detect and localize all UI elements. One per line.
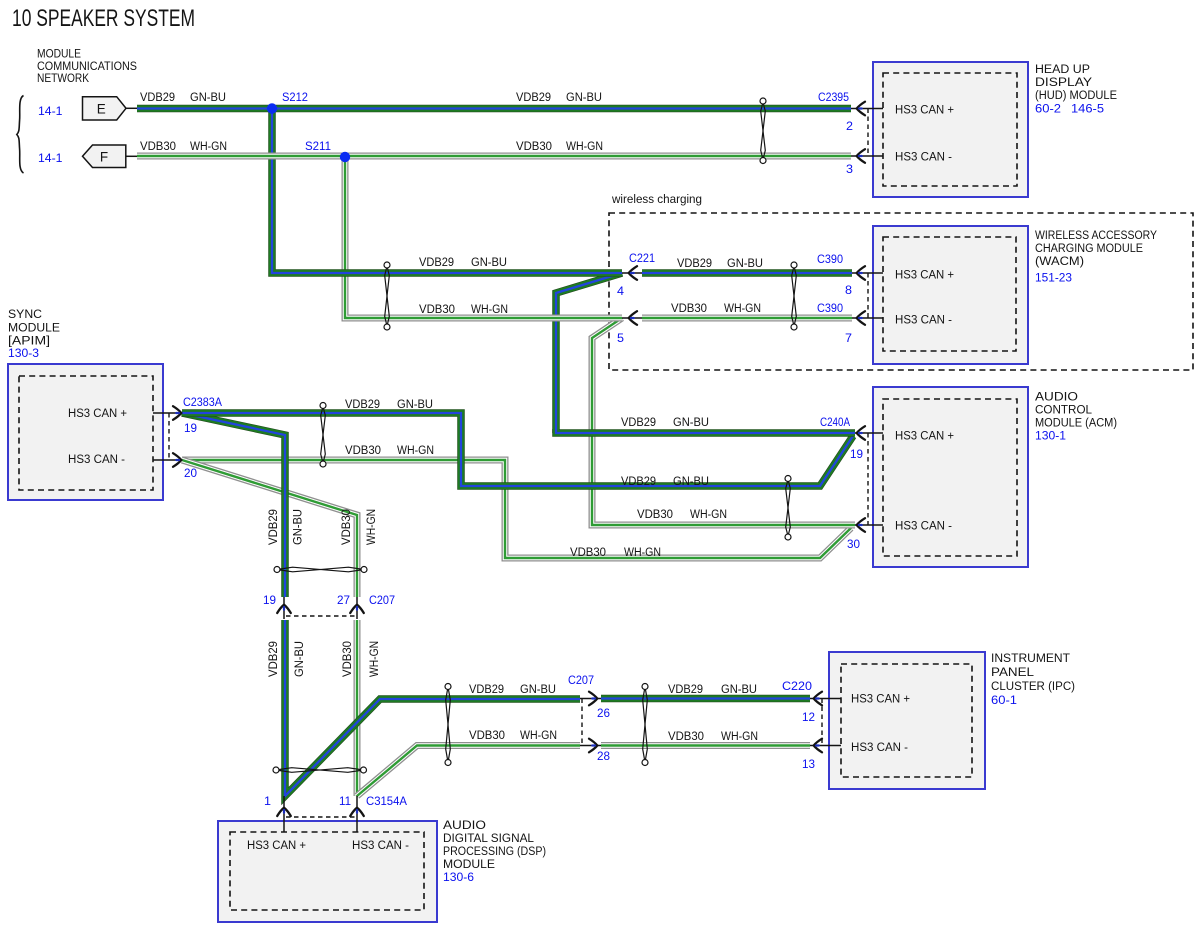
svg-text:GN-BU: GN-BU	[566, 90, 602, 104]
svg-text:MODULE: MODULE	[443, 857, 495, 871]
svg-text:WH-GN: WH-GN	[397, 443, 434, 457]
svg-text:HS3 CAN +: HS3 CAN +	[895, 429, 954, 443]
svg-text:28: 28	[597, 749, 610, 763]
svg-text:E: E	[97, 102, 106, 117]
svg-text:5: 5	[617, 331, 624, 345]
svg-text:60-2: 60-2	[1035, 102, 1061, 116]
svg-text:VDB29: VDB29	[266, 641, 280, 677]
svg-text:WH-GN: WH-GN	[566, 139, 603, 153]
svg-text:MODULE: MODULE	[8, 321, 60, 335]
svg-text:27: 27	[337, 593, 350, 607]
svg-text:C2383A: C2383A	[183, 395, 223, 409]
svg-text:CLUSTER (IPC): CLUSTER (IPC)	[991, 679, 1075, 693]
svg-text:HS3 CAN -: HS3 CAN -	[895, 519, 952, 533]
svg-text:MODULE (ACM): MODULE (ACM)	[1035, 416, 1117, 430]
svg-text:VDB30: VDB30	[140, 139, 176, 153]
svg-text:VDB29: VDB29	[419, 255, 454, 269]
svg-text:19: 19	[850, 447, 863, 461]
svg-text:HS3 CAN -: HS3 CAN -	[895, 313, 952, 327]
svg-text:HS3 CAN +: HS3 CAN +	[247, 838, 306, 852]
svg-text:wireless charging: wireless charging	[611, 192, 702, 206]
svg-text:19: 19	[263, 593, 276, 607]
svg-text:VDB29: VDB29	[621, 415, 656, 429]
svg-text:DISPLAY: DISPLAY	[1035, 75, 1092, 89]
svg-text:WH-GN: WH-GN	[721, 729, 758, 743]
svg-text:C207: C207	[568, 673, 594, 687]
svg-text:HS3 CAN -: HS3 CAN -	[68, 452, 125, 466]
svg-text:VDB30: VDB30	[516, 139, 552, 153]
svg-text:VDB29: VDB29	[345, 397, 380, 411]
svg-text:7: 7	[845, 331, 852, 345]
svg-text:C3154A: C3154A	[366, 794, 408, 808]
svg-text:C240A: C240A	[820, 415, 851, 429]
svg-text:GN-BU: GN-BU	[190, 90, 226, 104]
svg-text:HS3 CAN +: HS3 CAN +	[895, 103, 954, 117]
svg-text:VDB30: VDB30	[671, 301, 707, 315]
svg-text:VDB30: VDB30	[419, 302, 455, 316]
svg-text:WH-GN: WH-GN	[624, 545, 661, 559]
svg-text:INSTRUMENT: INSTRUMENT	[991, 651, 1070, 665]
svg-text:PROCESSING (DSP): PROCESSING (DSP)	[443, 844, 546, 858]
svg-text:C390: C390	[817, 252, 843, 266]
svg-text:3: 3	[846, 162, 853, 176]
svg-text:HS3 CAN +: HS3 CAN +	[68, 406, 127, 420]
svg-text:HS3 CAN +: HS3 CAN +	[895, 268, 954, 282]
svg-text:PANEL: PANEL	[991, 665, 1034, 679]
svg-text:GN-BU: GN-BU	[673, 474, 709, 488]
svg-text:C2395: C2395	[818, 90, 849, 104]
svg-text:GN-BU: GN-BU	[471, 255, 507, 269]
svg-text:VDB30: VDB30	[340, 641, 354, 677]
svg-text:DIGITAL SIGNAL: DIGITAL SIGNAL	[443, 831, 534, 845]
svg-text:VDB30: VDB30	[469, 728, 505, 742]
svg-text:HS3 CAN +: HS3 CAN +	[851, 692, 910, 706]
svg-text:WH-GN: WH-GN	[520, 728, 557, 742]
svg-text:AUDIO: AUDIO	[443, 818, 486, 832]
svg-text:GN-BU: GN-BU	[520, 682, 556, 696]
svg-text:WH-GN: WH-GN	[724, 301, 761, 315]
svg-text:C207: C207	[369, 593, 395, 607]
svg-text:SYNC: SYNC	[8, 307, 42, 321]
svg-text:VDB30: VDB30	[637, 507, 673, 521]
svg-text:HS3 CAN -: HS3 CAN -	[352, 838, 409, 852]
svg-text:HS3 CAN -: HS3 CAN -	[851, 740, 908, 754]
svg-text:VDB30: VDB30	[570, 545, 606, 559]
svg-text:WH-GN: WH-GN	[471, 302, 508, 316]
svg-text:C221: C221	[629, 251, 655, 265]
svg-text:S211: S211	[305, 139, 331, 153]
svg-text:19: 19	[184, 421, 197, 435]
svg-text:VDB30: VDB30	[339, 509, 353, 545]
svg-text:HEAD UP: HEAD UP	[1035, 62, 1090, 76]
svg-text:GN-BU: GN-BU	[727, 256, 763, 270]
svg-text:1: 1	[264, 794, 271, 808]
svg-text:VDB29: VDB29	[621, 474, 656, 488]
svg-text:GN-BU: GN-BU	[291, 509, 305, 545]
svg-text:26: 26	[597, 706, 610, 720]
svg-text:(HUD) MODULE: (HUD) MODULE	[1035, 88, 1117, 102]
svg-text:VDB29: VDB29	[516, 90, 551, 104]
svg-text:GN-BU: GN-BU	[292, 641, 306, 677]
svg-text:VDB29: VDB29	[140, 90, 175, 104]
svg-text:12: 12	[802, 710, 815, 724]
svg-text:GN-BU: GN-BU	[721, 682, 757, 696]
svg-text:C390: C390	[817, 301, 843, 315]
svg-text:WH-GN: WH-GN	[367, 641, 381, 677]
svg-text:GN-BU: GN-BU	[673, 415, 709, 429]
svg-text:VDB29: VDB29	[266, 509, 280, 545]
svg-text:14-1: 14-1	[38, 151, 63, 165]
svg-text:11: 11	[339, 794, 351, 808]
svg-text:VDB30: VDB30	[668, 729, 704, 743]
svg-text:NETWORK: NETWORK	[37, 71, 90, 85]
svg-text:WH-GN: WH-GN	[190, 139, 227, 153]
svg-text:HS3 CAN -: HS3 CAN -	[895, 150, 952, 164]
svg-text:F: F	[100, 150, 108, 165]
svg-text:146-5: 146-5	[1071, 102, 1104, 116]
svg-text:130-3: 130-3	[8, 346, 39, 360]
svg-text:VDB30: VDB30	[345, 443, 381, 457]
svg-text:WIRELESS ACCESSORY: WIRELESS ACCESSORY	[1035, 228, 1157, 242]
svg-text:4: 4	[617, 284, 624, 298]
svg-text:60-1: 60-1	[991, 693, 1017, 707]
svg-text:10 SPEAKER SYSTEM: 10 SPEAKER SYSTEM	[12, 5, 195, 32]
svg-text:30: 30	[847, 537, 860, 551]
svg-text:CONTROL: CONTROL	[1035, 403, 1092, 417]
svg-text:S212: S212	[282, 90, 308, 104]
svg-text:VDB29: VDB29	[677, 256, 712, 270]
svg-text:8: 8	[845, 283, 852, 297]
svg-text:VDB29: VDB29	[668, 682, 703, 696]
svg-text:151-23: 151-23	[1035, 271, 1072, 285]
svg-text:130-6: 130-6	[443, 870, 474, 884]
svg-text:WH-GN: WH-GN	[690, 507, 727, 521]
svg-text:CHARGING MODULE: CHARGING MODULE	[1035, 241, 1143, 255]
svg-text:VDB29: VDB29	[469, 682, 504, 696]
svg-text:AUDIO: AUDIO	[1035, 390, 1078, 404]
svg-text:WH-GN: WH-GN	[364, 509, 378, 545]
svg-text:20: 20	[184, 466, 197, 480]
svg-text:C220: C220	[782, 679, 812, 693]
svg-text:130-1: 130-1	[1035, 429, 1066, 443]
svg-text:13: 13	[802, 757, 815, 771]
svg-text:(WACM): (WACM)	[1035, 254, 1084, 268]
svg-text:GN-BU: GN-BU	[397, 397, 433, 411]
svg-text:2: 2	[846, 119, 853, 133]
svg-text:14-1: 14-1	[38, 104, 63, 118]
